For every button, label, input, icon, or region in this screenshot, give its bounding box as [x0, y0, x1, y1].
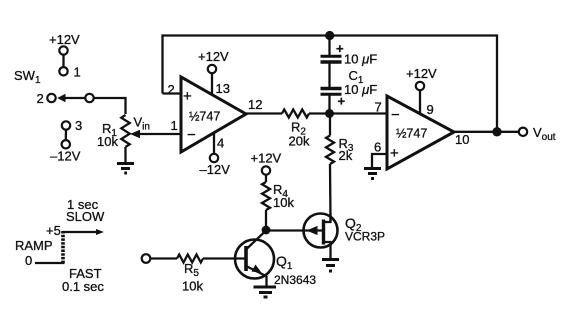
resistor R4 [262, 182, 270, 210]
svg-text:VCR3P: VCR3P [345, 230, 385, 244]
wire input to R5 [150, 257, 177, 259]
svg-text:20k: 20k [289, 134, 310, 149]
pin 4 wire [213, 133, 215, 154]
terminal -12V SW1 [62, 140, 70, 148]
wire R3 to Q2 drain [329, 164, 332, 221]
svg-text:+12V: +12V [406, 66, 437, 81]
wire op2 output to node C [454, 131, 497, 133]
wire pin 6 to ground [372, 154, 387, 168]
capacitor C1 (two 10uF electrolytics back to back) [321, 36, 342, 114]
ground (below R1) [117, 164, 134, 174]
terminal SW1 position 3 [62, 121, 70, 129]
wire R1 bottom to ground [124, 147, 126, 163]
wire node B to op2 pin 7 [330, 112, 388, 114]
ramp top line with arrow [63, 229, 104, 235]
svg-text:SLOW: SLOW [66, 209, 105, 224]
node D (R4 / Q1 collector / Q2 gate) [262, 226, 271, 235]
terminal SW1 position 1 [59, 67, 67, 75]
svg-text:+: + [390, 145, 399, 162]
wire feedback top (op1 +input to output node) [163, 36, 498, 132]
terminal +12V SW1 [59, 46, 67, 54]
svg-text:1: 1 [171, 118, 178, 133]
terminal SW1 position 2 [47, 94, 55, 102]
svg-text:13: 13 [216, 81, 230, 96]
svg-text:10: 10 [455, 132, 469, 147]
svg-text:10k: 10k [273, 195, 294, 210]
svg-text:+: + [183, 88, 192, 105]
svg-text:9: 9 [427, 102, 434, 117]
svg-text:½747: ½747 [189, 110, 220, 124]
pin 9 wire [419, 90, 421, 114]
svg-text:0: 0 [25, 253, 32, 268]
terminal input (R5 left) [142, 254, 151, 263]
svg-text:7: 7 [375, 100, 382, 115]
switch SW1 wiper arrow [57, 94, 85, 102]
op-amp U1 (1/2 747) [181, 77, 246, 152]
wire R2 to node B [309, 112, 330, 114]
value label R1 10k [97, 121, 118, 149]
svg-text:0.1 sec: 0.1 sec [62, 279, 104, 294]
ramp bottom line [35, 262, 65, 264]
svg-text:10 μF: 10 μF [344, 82, 377, 97]
svg-text:3: 3 [75, 118, 82, 133]
terminal Vout [519, 128, 527, 136]
svg-text:−: − [187, 126, 196, 143]
wire node C to Vout terminal [497, 131, 519, 133]
wire (SW1 wiper to R1 top) [94, 98, 126, 114]
potentiometer R1 [121, 115, 129, 147]
terminal +12V op2 [416, 82, 424, 90]
resistor R5 [177, 255, 203, 263]
node B (junction R2 / C1 / R3 / pin7) [325, 109, 334, 118]
node A (top junction of C1 on feedback wire) [325, 31, 334, 40]
resistor R2 [282, 110, 309, 118]
svg-text:+12V: +12V [251, 151, 282, 166]
transistor Q2 (VCR3P JFET) [304, 213, 338, 259]
wire R4 to node D [265, 210, 267, 230]
ground (op2 pin 6) [364, 169, 381, 179]
terminal +12V R4 [262, 166, 270, 174]
value label R5 10k [182, 261, 203, 294]
wire op1 output to R2 [246, 112, 282, 114]
terminal SW1 wiper [85, 94, 93, 102]
op-amp U2 (1/2 747) [387, 96, 454, 169]
svg-text:12: 12 [248, 97, 262, 112]
svg-text:+12V: +12V [49, 32, 80, 47]
svg-text:−: − [391, 107, 400, 124]
transistor Q1 (2N3643 NPN) [235, 231, 274, 279]
svg-text:RAMP: RAMP [15, 238, 53, 253]
svg-text:+: + [336, 41, 344, 56]
value label R4 10k [273, 182, 294, 210]
wire node D to Q2 gate [266, 229, 304, 231]
svg-text:1: 1 [74, 65, 81, 80]
terminal +12V op1 [208, 65, 216, 73]
svg-text:+12V: +12V [198, 49, 229, 64]
svg-text:4: 4 [217, 136, 224, 151]
ground (Q1 emitter) [254, 287, 277, 297]
svg-text:2: 2 [168, 82, 175, 97]
svg-text:10k: 10k [97, 134, 118, 149]
svg-text:2k: 2k [339, 148, 353, 163]
wire (SW1 +12V to pos1) [62, 55, 64, 68]
svg-text:10 μF: 10 μF [344, 52, 377, 67]
svg-text:2N3643: 2N3643 [274, 273, 316, 287]
svg-text:+: + [338, 94, 346, 109]
value label R3 2k [339, 136, 354, 163]
wire +12V to R4 [265, 175, 267, 182]
wire (SW1 pos3 to -12V) [65, 130, 67, 140]
svg-text:–12V: –12V [50, 149, 81, 164]
wire Q1 emitter to ground [265, 276, 267, 287]
ground (Q2 source) [322, 260, 339, 272]
terminal -12V op1 [210, 154, 218, 162]
ramp vertical edge [61, 231, 65, 263]
wire R1 wiper to op-amp pin 1 [130, 130, 181, 139]
svg-text:2: 2 [37, 91, 44, 106]
resistor R3 [326, 114, 334, 165]
svg-text:–12V: –12V [200, 162, 231, 177]
svg-text:10k: 10k [182, 279, 203, 294]
pin 13 wire [211, 73, 213, 95]
svg-text:6: 6 [374, 140, 381, 155]
svg-text:+5: +5 [46, 223, 61, 238]
wire R5 to Q1 base [203, 257, 246, 259]
node C (output node) [492, 127, 501, 136]
svg-text:½747: ½747 [396, 127, 427, 141]
value label R2 20k [289, 120, 310, 149]
